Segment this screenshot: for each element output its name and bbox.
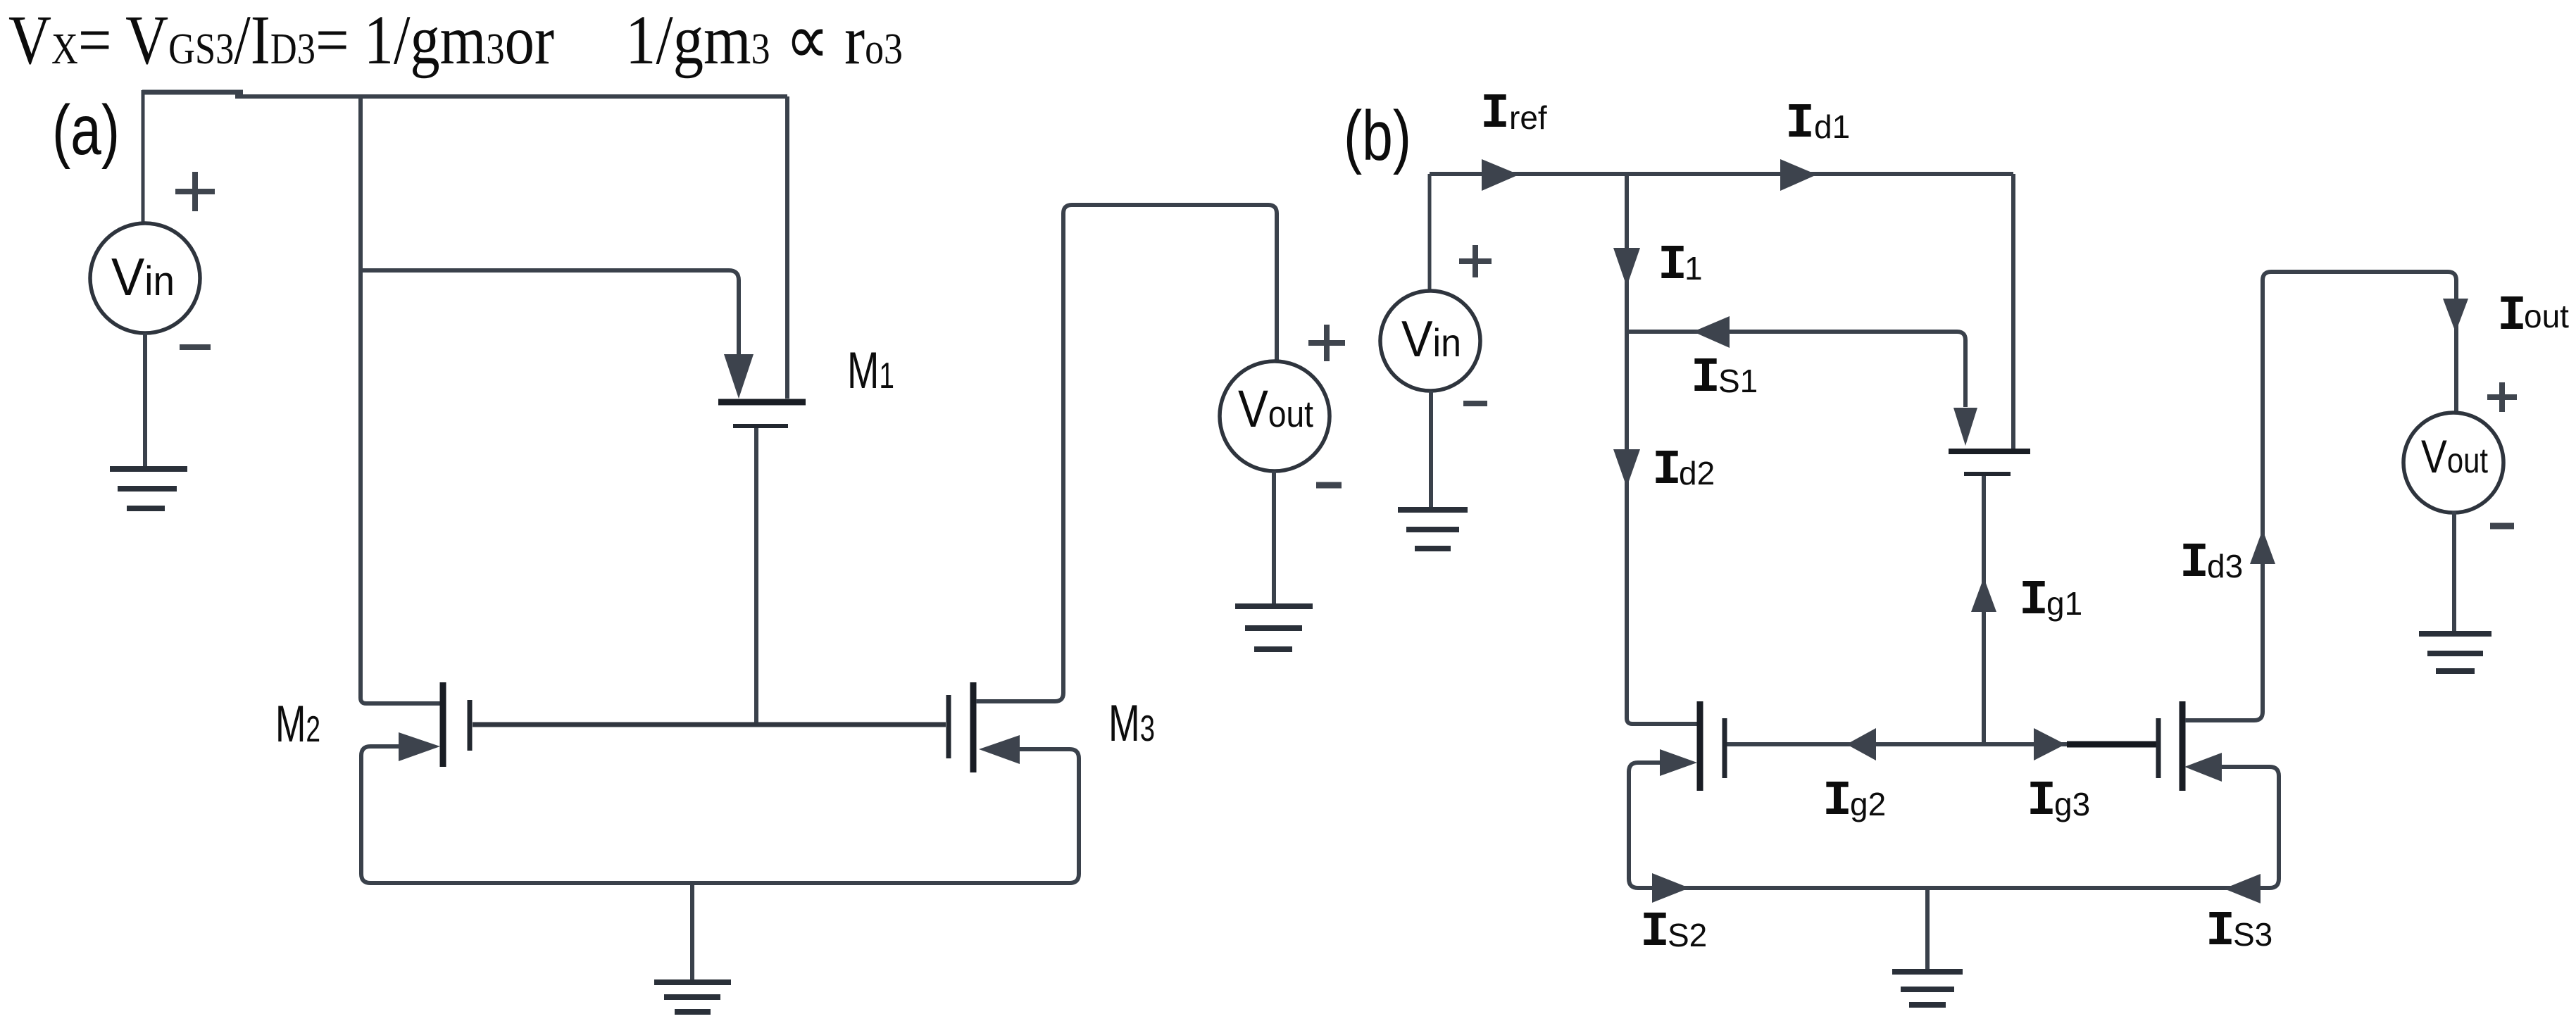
arrow Is2 <box>1652 873 1689 903</box>
arrow Ig1 <box>1971 577 1996 612</box>
svg-text:(a): (a) <box>52 91 120 170</box>
transistor M3b tall bar <box>2180 701 2186 791</box>
wire Vout-a to ground <box>1272 471 1276 604</box>
svg-text:I: I <box>2019 573 2049 629</box>
thick gate segment near M3b <box>2067 741 2158 748</box>
arrow Iref <box>1482 159 1519 191</box>
svg-text:d3: d3 <box>2207 548 2243 584</box>
svg-text:1: 1 <box>1684 250 1703 287</box>
wire M2 source loop + bottom rail (a) + M3 source <box>361 746 1079 883</box>
transistor M1 top bar <box>718 399 806 406</box>
arrow Id3 <box>2250 530 2275 564</box>
svg-text:VX= VGS3/ID3= 1/gm3or: VX= VGS3/ID3= 1/gm3or <box>8 1 554 79</box>
svg-text:I: I <box>1652 443 1682 499</box>
wire top rail (b) <box>1430 172 2013 176</box>
voltage source Vout (b) <box>2403 413 2503 513</box>
arrow Ig3 <box>2034 728 2065 760</box>
source arrow M2 <box>399 732 440 761</box>
wire M1 source down to gate line <box>754 428 758 722</box>
ground below (a) <box>654 979 731 985</box>
minus Vout-b <box>2490 523 2514 530</box>
svg-text:g1: g1 <box>2046 585 2082 622</box>
svg-text:g2: g2 <box>1850 786 1886 822</box>
transistor M3 gate bar <box>946 695 951 758</box>
svg-text:I: I <box>1480 87 1510 142</box>
minus Vout-a <box>1316 482 1342 489</box>
minus Vin-a <box>180 344 211 350</box>
gate arrow M1 <box>724 354 754 399</box>
arrow Is3 <box>2224 874 2261 903</box>
minus Vin-b <box>1463 401 1487 406</box>
svg-text:I: I <box>1640 905 1670 960</box>
svg-text:I: I <box>1785 96 1815 152</box>
arrow Id2 <box>1613 449 1640 487</box>
wire top rail (a) <box>142 90 243 95</box>
arrow Is1 <box>1693 316 1730 348</box>
svg-text:M2: M2 <box>275 696 320 753</box>
svg-text:S1: S1 <box>1718 363 1758 399</box>
svg-text:I: I <box>2206 904 2235 960</box>
ground below Vout-b <box>2419 631 2491 637</box>
ground below Vout-a <box>1235 603 1313 609</box>
svg-text:I: I <box>1691 351 1720 406</box>
svg-text:M1: M1 <box>847 342 894 399</box>
voltage source Vin (b) <box>1380 291 1480 391</box>
transistor M1b top bar <box>1949 449 2030 454</box>
source arrow M3 <box>979 735 1020 764</box>
transistor M2 gate bar <box>468 700 473 751</box>
wire M3 drain up to Vout loop <box>976 205 1277 701</box>
svg-text:M3: M3 <box>1108 695 1155 752</box>
arrow into M1b <box>1953 408 1977 446</box>
wire Vin-a to ground <box>143 333 147 468</box>
svg-text:I: I <box>1822 774 1852 829</box>
svg-text:I: I <box>1658 238 1687 294</box>
ground below Vin-a <box>110 466 187 472</box>
label area: source arrow M2b <box>1660 749 1697 776</box>
voltage source Vout (a) <box>1220 361 1330 471</box>
transistor M2b gate bar <box>1722 718 1727 778</box>
plus Vin-a <box>175 172 215 211</box>
plus Vout-a <box>1308 325 1345 361</box>
arrow I1 <box>1613 248 1640 287</box>
wire M1 drain from rail <box>785 96 789 399</box>
transistor M3b gate bar <box>2156 718 2161 778</box>
svg-text:out: out <box>2524 298 2569 334</box>
wire M1b drain from rail <box>2011 174 2015 449</box>
wire M1b stem down to gate line <box>1982 476 1986 742</box>
arrow Ig2 <box>1846 728 1876 760</box>
wire Is1 branch <box>1627 332 1965 407</box>
wire gate feed M1 <box>361 270 739 356</box>
wire I1/Id2 vertical into M2b drain <box>1627 174 1698 724</box>
wire ground tap (a) <box>690 885 694 980</box>
svg-text:I: I <box>2497 289 2527 344</box>
transistor M3 tall bar <box>970 682 977 772</box>
transistor M1b bottom bar <box>1964 472 2011 476</box>
ground below Vin-b <box>1398 507 1468 513</box>
svg-text:ref: ref <box>1509 99 1547 136</box>
transistor M2b tall bar <box>1697 701 1703 791</box>
wire gate line (b) <box>1727 742 2158 746</box>
voltage source Vin (a) <box>90 223 200 333</box>
wire Vout-b to ground <box>2452 511 2456 632</box>
svg-text:1/gm3 ∝ ro3: 1/gm3 ∝ ro3 <box>625 1 903 79</box>
ground below (b) <box>1892 969 1963 975</box>
plus Vout-b <box>2487 382 2517 412</box>
svg-text:I: I <box>2180 536 2209 591</box>
arrow Iout <box>2443 299 2468 332</box>
wire Vin-b stem <box>1428 174 1432 292</box>
wire vertical node X (left long vertical) <box>361 94 442 703</box>
svg-text:g3: g3 <box>2054 786 2090 822</box>
arrow Id1 <box>1780 159 1817 191</box>
wire Vin-a to rail <box>142 90 145 223</box>
wire M3b drain up and over to Vout-b <box>2185 272 2456 720</box>
wire M2b source loop + bottom rail (b) + M3b source <box>1629 763 2279 888</box>
svg-text:I: I <box>2027 774 2056 829</box>
wire Vin-b to ground <box>1429 391 1433 508</box>
source arrow M3b <box>2184 753 2222 782</box>
wire gate line (a) M2-M3 <box>473 722 946 727</box>
svg-text:d2: d2 <box>1679 455 1715 492</box>
svg-text:S3: S3 <box>2233 916 2272 953</box>
transistor M2 tall bar <box>440 682 446 767</box>
wire ground tap (b) <box>1925 888 1930 970</box>
plus Vin-b <box>1459 245 1492 277</box>
svg-text:d1: d1 <box>1814 108 1850 145</box>
svg-text:S2: S2 <box>1668 917 1707 953</box>
transistor M1 bottom bar <box>733 424 788 428</box>
svg-text:(b): (b) <box>1344 96 1411 175</box>
